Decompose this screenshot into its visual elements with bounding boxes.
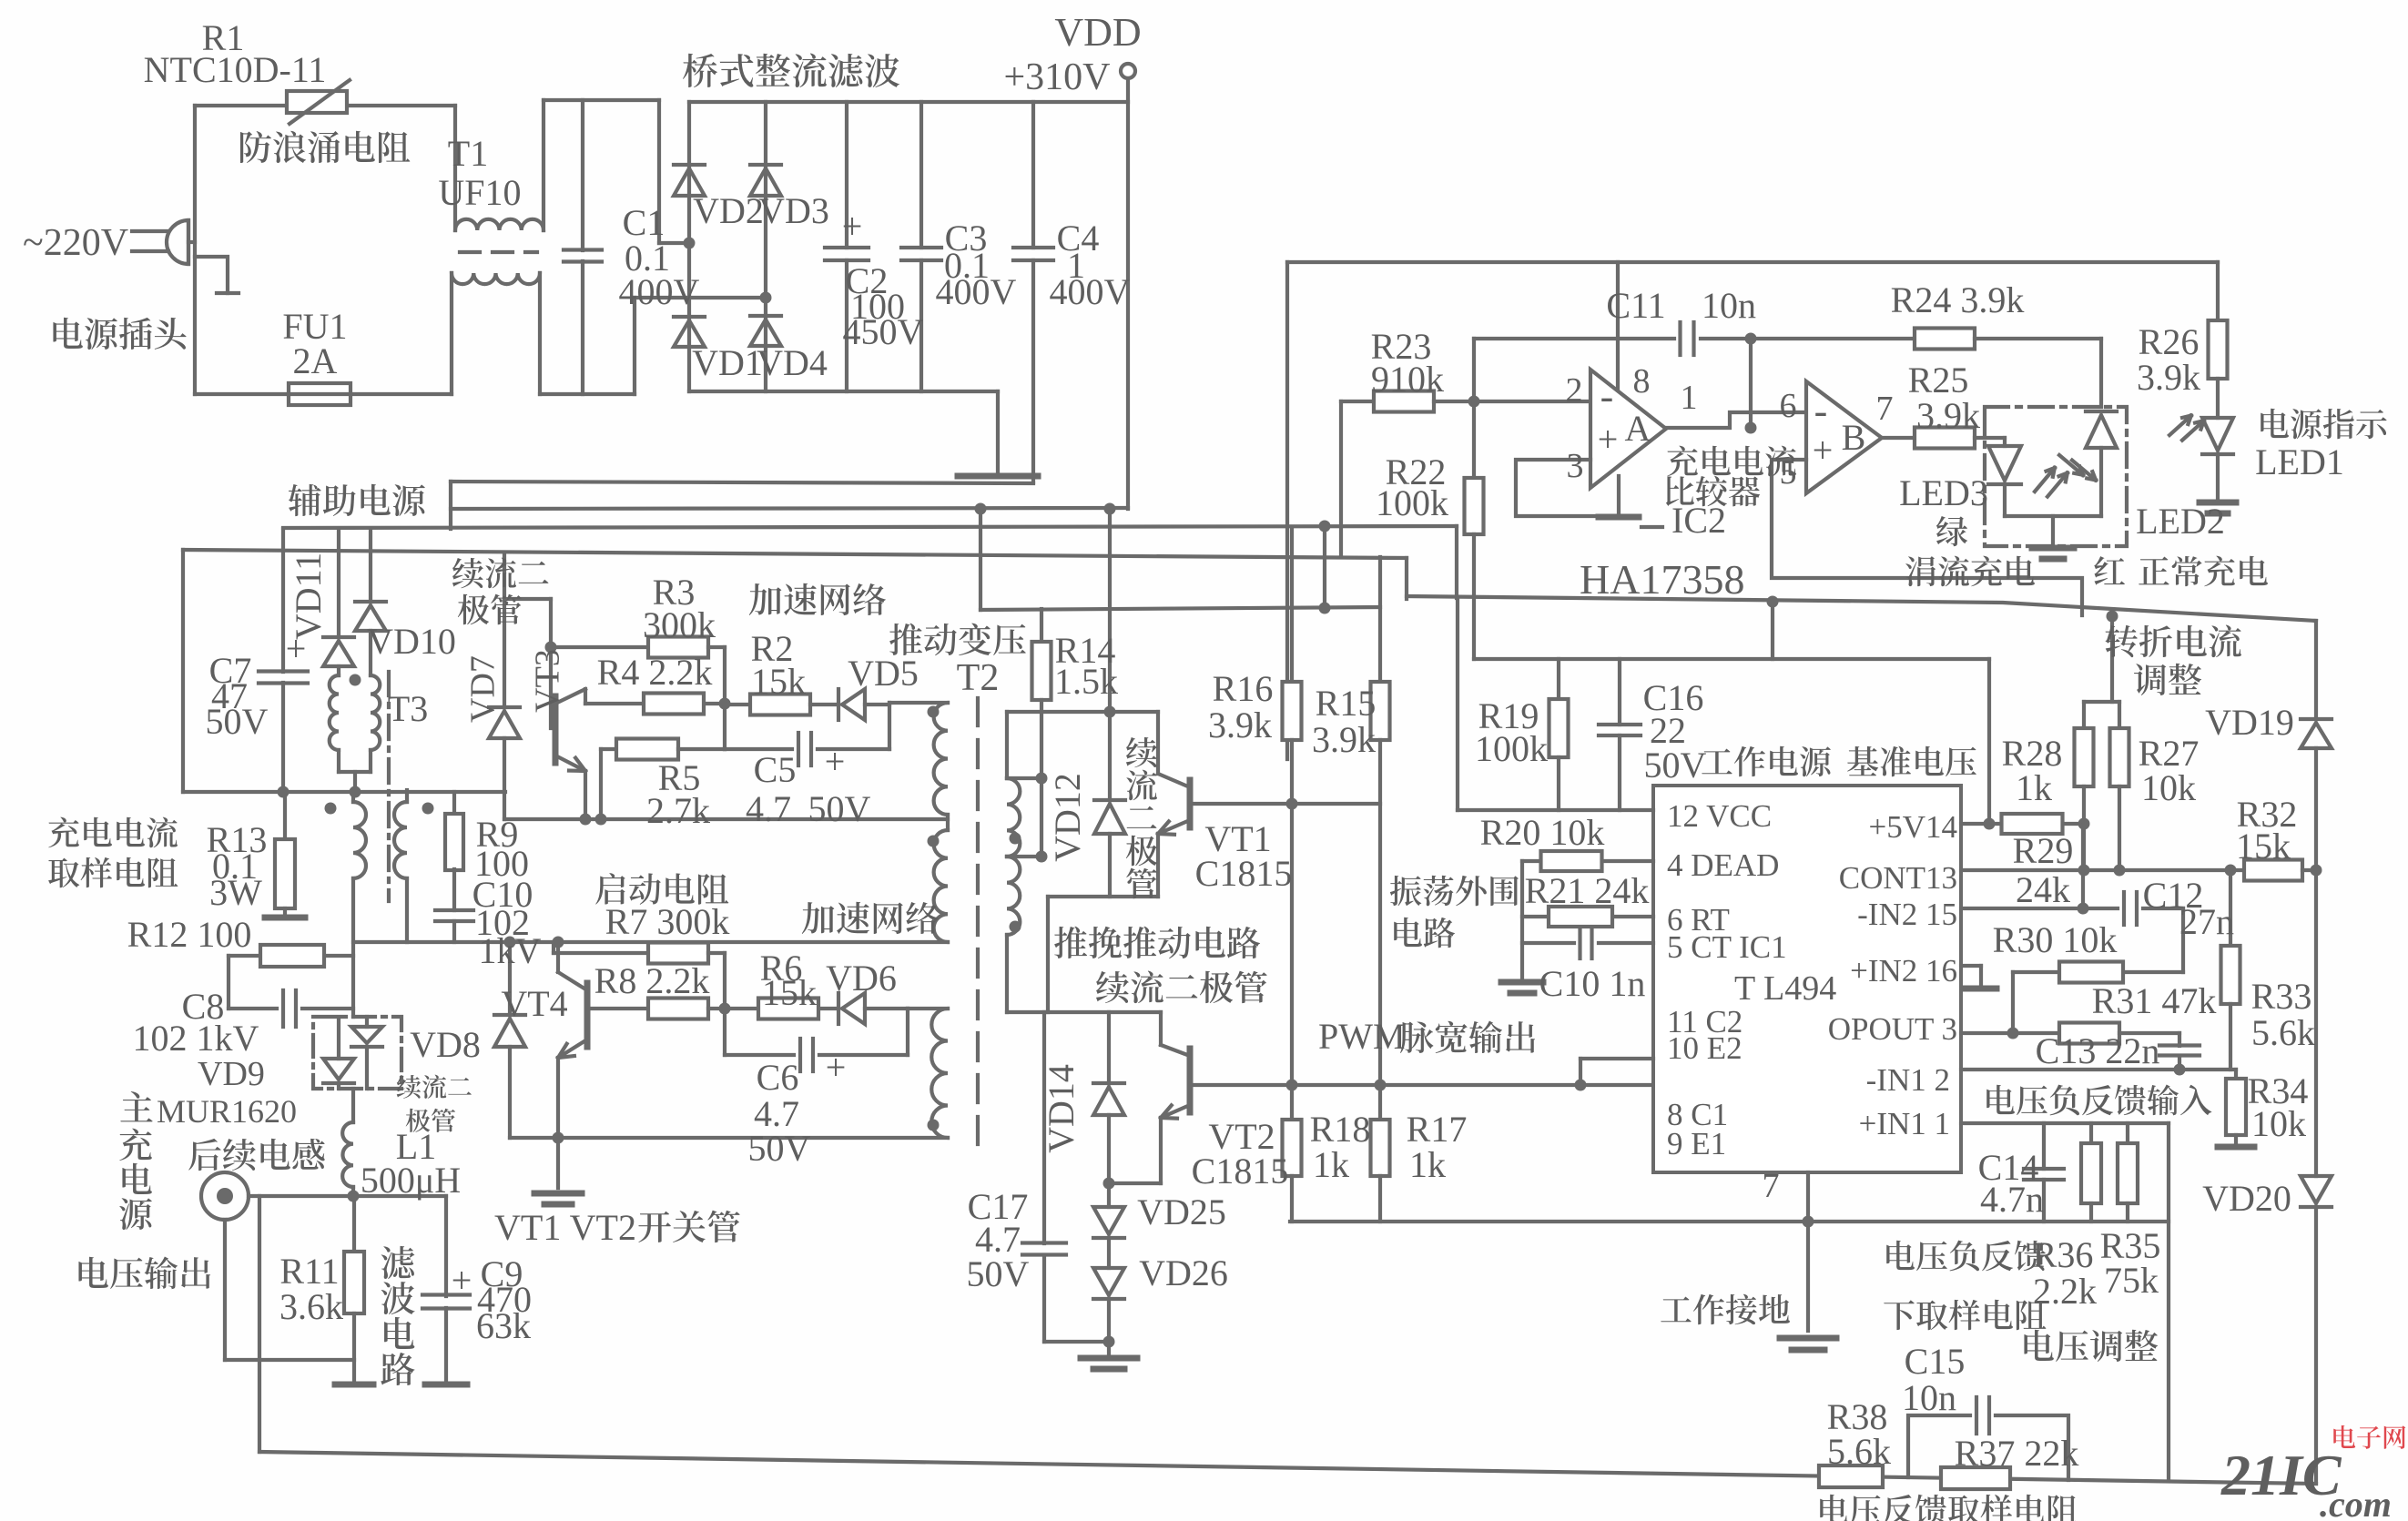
- svg-text:VD19: VD19: [2205, 702, 2294, 743]
- svg-text:+: +: [1598, 419, 1619, 460]
- svg-text:R33: R33: [2251, 976, 2312, 1017]
- svg-text:10 E2: 10 E2: [1667, 1030, 1742, 1066]
- svg-text:R20 10k: R20 10k: [1480, 812, 1605, 853]
- svg-text:LED3: LED3: [1899, 472, 1988, 513]
- svg-text:50V: 50V: [206, 701, 269, 742]
- svg-text:500μH: 500μH: [361, 1160, 461, 1201]
- svg-text:1k: 1k: [1409, 1144, 1446, 1185]
- svg-text:VD3: VD3: [758, 190, 829, 231]
- svg-text:VD5: VD5: [848, 653, 919, 694]
- svg-text:+IN2 16: +IN2 16: [1850, 953, 1957, 989]
- svg-text:5.6k: 5.6k: [1827, 1431, 1891, 1472]
- svg-text:NTC10D-11: NTC10D-11: [144, 49, 327, 90]
- svg-text:9 E1: 9 E1: [1667, 1126, 1726, 1161]
- svg-text:100k: 100k: [1475, 728, 1548, 769]
- svg-text:R29: R29: [2013, 830, 2074, 871]
- svg-text:VD4: VD4: [757, 342, 828, 383]
- svg-text:VD9: VD9: [198, 1055, 265, 1093]
- svg-text:63k: 63k: [476, 1305, 531, 1346]
- svg-text:R16: R16: [1213, 668, 1274, 709]
- svg-text:OPOUT 3: OPOUT 3: [1828, 1011, 1957, 1047]
- svg-text:+IN1 1: +IN1 1: [1859, 1106, 1950, 1141]
- svg-text:+: +: [1813, 430, 1834, 471]
- svg-text:7: 7: [1876, 390, 1894, 428]
- svg-text:T L494: T L494: [1734, 969, 1836, 1008]
- svg-text:-: -: [1600, 374, 1614, 419]
- svg-text:LED2: LED2: [2136, 501, 2225, 542]
- svg-text:C1815: C1815: [1195, 853, 1293, 894]
- svg-text:A: A: [1625, 408, 1651, 449]
- svg-text:VT3: VT3: [528, 649, 566, 713]
- svg-text:1kV: 1kV: [479, 930, 542, 971]
- svg-text:3.9k: 3.9k: [1208, 705, 1272, 745]
- svg-text:2A: 2A: [293, 340, 338, 381]
- svg-text:15k: 15k: [2236, 826, 2291, 867]
- svg-text:8: 8: [1633, 362, 1651, 401]
- svg-text:VD11: VD11: [288, 553, 329, 640]
- svg-text:T2: T2: [957, 657, 1000, 699]
- svg-text:1.5k: 1.5k: [1054, 661, 1118, 702]
- svg-text:100k: 100k: [1376, 482, 1448, 523]
- svg-text:3W: 3W: [209, 872, 262, 913]
- svg-text:B: B: [1842, 417, 1866, 458]
- svg-text:VD8: VD8: [410, 1024, 481, 1065]
- svg-text:VD6: VD6: [826, 958, 897, 999]
- svg-text:400V: 400V: [1050, 271, 1131, 312]
- svg-text:1k: 1k: [2016, 767, 2052, 808]
- svg-text:1k: 1k: [1313, 1144, 1349, 1185]
- svg-text:3.9k: 3.9k: [1916, 395, 1980, 436]
- svg-text:102 1kV: 102 1kV: [133, 1018, 259, 1059]
- svg-text:12 VCC: 12 VCC: [1667, 798, 1772, 834]
- svg-text:VT4: VT4: [501, 983, 567, 1024]
- svg-text:3.6k: 3.6k: [279, 1286, 343, 1327]
- svg-text:T1: T1: [448, 133, 488, 174]
- svg-text:R7 300k: R7 300k: [605, 901, 730, 942]
- svg-text:CONT13: CONT13: [1839, 860, 1957, 896]
- svg-text:VD20: VD20: [2202, 1178, 2291, 1219]
- svg-text:-IN2 15: -IN2 15: [1857, 897, 1957, 932]
- svg-text:VT1 VT2: VT1 VT2: [494, 1207, 636, 1248]
- svg-text:+: +: [452, 1260, 472, 1301]
- svg-text:C5: C5: [754, 749, 797, 790]
- svg-text:910k: 910k: [1371, 359, 1444, 400]
- svg-text:2.7k: 2.7k: [646, 790, 710, 831]
- svg-text:-IN1 2: -IN1 2: [1866, 1062, 1950, 1098]
- svg-text:400V: 400V: [619, 271, 700, 312]
- svg-text:3.9k: 3.9k: [1312, 719, 1376, 760]
- svg-text:PWM: PWM: [1318, 1016, 1406, 1057]
- svg-text:C13 22n: C13 22n: [2036, 1030, 2160, 1071]
- svg-text:C11: C11: [1606, 285, 1665, 326]
- svg-text:R24 3.9k: R24 3.9k: [1891, 279, 2025, 320]
- svg-text:+: +: [826, 1047, 847, 1088]
- svg-text:R15: R15: [1316, 683, 1377, 724]
- svg-text:15k: 15k: [751, 661, 806, 702]
- svg-text:2: 2: [1566, 371, 1583, 410]
- svg-text:50V: 50V: [748, 1128, 811, 1169]
- svg-text:10k: 10k: [2251, 1103, 2306, 1144]
- svg-text:2.2k: 2.2k: [2033, 1271, 2097, 1312]
- svg-text:.com: .com: [2320, 1484, 2392, 1521]
- svg-text:VDD: VDD: [1054, 10, 1141, 55]
- svg-text:MUR1620: MUR1620: [157, 1093, 297, 1130]
- svg-text:4.7n: 4.7n: [1980, 1179, 2044, 1220]
- svg-text:4 DEAD: 4 DEAD: [1667, 847, 1779, 883]
- svg-text:+310V: +310V: [1003, 56, 1110, 98]
- svg-text:R4 2.2k: R4 2.2k: [597, 652, 713, 693]
- svg-text:R8 2.2k: R8 2.2k: [594, 960, 710, 1001]
- svg-text:R12 100: R12 100: [127, 914, 252, 955]
- svg-text:5 CT IC1: 5 CT IC1: [1667, 929, 1787, 965]
- svg-text:50V: 50V: [1644, 745, 1707, 786]
- svg-text:+: +: [842, 206, 863, 247]
- svg-text:VD14: VD14: [1041, 1064, 1082, 1153]
- svg-text:HA17358: HA17358: [1580, 556, 1744, 603]
- svg-text:R31 47k: R31 47k: [2092, 980, 2217, 1021]
- svg-text:VD26: VD26: [1139, 1252, 1228, 1293]
- svg-text:VD12: VD12: [1047, 773, 1088, 862]
- svg-text:50V: 50V: [967, 1253, 1030, 1294]
- svg-text:450V: 450V: [843, 311, 924, 352]
- svg-text:R21 24k: R21 24k: [1525, 870, 1650, 911]
- svg-text:C6: C6: [757, 1057, 799, 1098]
- svg-text:3.9k: 3.9k: [2137, 357, 2200, 398]
- svg-text:1: 1: [1681, 379, 1698, 417]
- svg-text:-: -: [1814, 389, 1828, 433]
- svg-text:R30 10k: R30 10k: [1993, 919, 2118, 960]
- svg-text:3: 3: [1567, 447, 1584, 485]
- svg-text:C15: C15: [1905, 1341, 1966, 1382]
- svg-text:24k: 24k: [2016, 869, 2070, 910]
- svg-text:15k: 15k: [762, 972, 817, 1013]
- svg-text:+5V14: +5V14: [1868, 809, 1957, 845]
- svg-text:4.7: 4.7: [746, 788, 791, 829]
- svg-text:VD1: VD1: [692, 342, 763, 383]
- svg-text:+: +: [825, 741, 846, 782]
- svg-text:LED1: LED1: [2255, 441, 2344, 482]
- svg-text:10n: 10n: [1702, 285, 1756, 326]
- svg-text:7: 7: [1763, 1167, 1780, 1205]
- svg-text:VD10: VD10: [367, 621, 456, 662]
- svg-text:10n: 10n: [1902, 1377, 1956, 1418]
- svg-text:6: 6: [1780, 387, 1797, 425]
- svg-text:50V: 50V: [808, 788, 871, 829]
- svg-text:10k: 10k: [2141, 767, 2196, 808]
- svg-text:C1815: C1815: [1192, 1151, 1289, 1191]
- svg-text:T3: T3: [388, 688, 428, 729]
- svg-text:R37 22k: R37 22k: [1955, 1433, 2079, 1474]
- svg-text:27n: 27n: [2179, 901, 2234, 942]
- svg-text:400V: 400V: [936, 271, 1017, 312]
- svg-text:VD2: VD2: [693, 190, 764, 231]
- svg-text:IC2: IC2: [1671, 500, 1726, 541]
- svg-text:VD7: VD7: [463, 655, 502, 723]
- svg-text:300k: 300k: [643, 604, 716, 645]
- svg-text:VD25: VD25: [1137, 1191, 1226, 1232]
- svg-text:~220V: ~220V: [23, 222, 128, 264]
- svg-text:C10 1n: C10 1n: [1539, 963, 1646, 1004]
- svg-text:75k: 75k: [2104, 1260, 2159, 1301]
- svg-text:5.6k: 5.6k: [2251, 1012, 2315, 1053]
- svg-text:UF10: UF10: [438, 172, 521, 213]
